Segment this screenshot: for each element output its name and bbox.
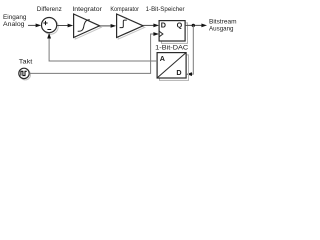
integrator U1 triangle bbox=[74, 14, 100, 38]
arrowhead into DAC D input bbox=[186, 72, 192, 76]
arrowhead into D input bbox=[153, 24, 159, 28]
wire summing to integrator bbox=[57, 25, 69, 27]
clock edge triangle bbox=[159, 31, 163, 37]
arrowhead into integrator bbox=[68, 24, 74, 28]
arrowhead to Bitstream output bbox=[201, 24, 207, 28]
comparator U2 triangle bbox=[117, 14, 144, 38]
comparator U2 shadow bbox=[118, 16, 145, 39]
svg-text:A: A bbox=[160, 54, 165, 63]
minus sign bbox=[47, 29, 51, 31]
svg-text:Integrator: Integrator bbox=[72, 6, 102, 13]
svg-text:Ausgang: Ausgang bbox=[209, 25, 234, 32]
wire integrator to comparator bbox=[100, 25, 112, 27]
summing junction S1 bbox=[42, 18, 57, 33]
svg-text:Eingang: Eingang bbox=[3, 14, 27, 21]
svg-text:D: D bbox=[161, 21, 166, 30]
arrowhead up into summing junction bbox=[47, 33, 51, 39]
wire Q output bbox=[185, 24, 202, 26]
svg-text:1-Bit-Speicher: 1-Bit-Speicher bbox=[146, 6, 186, 13]
clock source G1 shadow bbox=[20, 70, 30, 80]
arrowhead into comparator bbox=[111, 24, 117, 28]
svg-text:Q: Q bbox=[177, 21, 183, 30]
clock source G1 bbox=[19, 68, 29, 78]
plus sign bbox=[43, 21, 47, 25]
svg-text:D: D bbox=[176, 68, 181, 77]
wire DAC output feedback to summing junction bbox=[49, 37, 157, 61]
svg-text:Takt: Takt bbox=[19, 58, 33, 65]
flip-flop U3 shadow bbox=[162, 23, 188, 44]
svg-text:Komparator: Komparator bbox=[110, 6, 139, 13]
svg-text:Differenz: Differenz bbox=[37, 6, 63, 13]
integrator U1 shadow bbox=[75, 16, 101, 39]
svg-text:1-Bit-DAC: 1-Bit-DAC bbox=[155, 45, 188, 52]
flip-flop U3 box bbox=[159, 21, 185, 41]
summing junction S1 shadow bbox=[43, 19, 58, 34]
step symbol bbox=[120, 20, 127, 28]
label Eingang Analog bbox=[3, 14, 27, 28]
wire input bbox=[28, 24, 37, 26]
arrowhead into clock input bbox=[153, 32, 159, 36]
node junction dot bbox=[192, 24, 195, 27]
DAC U4 box bbox=[157, 53, 186, 78]
DAC diagonal bbox=[157, 53, 186, 78]
clock waveform glyph bbox=[21, 71, 27, 75]
DAC U4 shadow bbox=[160, 55, 189, 81]
label Bitstream Ausgang bbox=[209, 19, 237, 33]
wire clock to flip-flop bbox=[29, 34, 154, 73]
wire comparator to flip-flop bbox=[143, 24, 154, 26]
wire feedback down from node bbox=[191, 25, 194, 74]
integral symbol bbox=[78, 20, 90, 31]
svg-text:Analog: Analog bbox=[3, 21, 25, 28]
arrowhead into summing junction bbox=[36, 24, 42, 28]
